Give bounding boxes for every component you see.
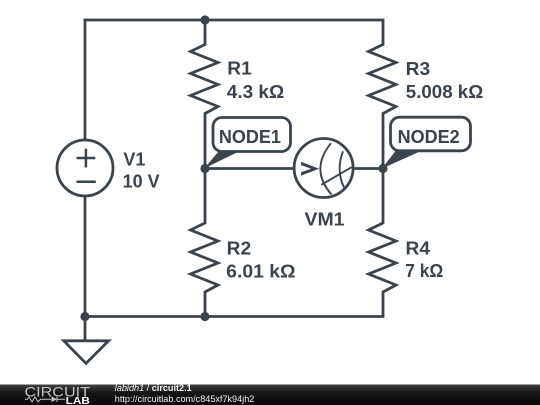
svg-text:10 V: 10 V [123, 171, 160, 191]
svg-text:NODE1: NODE1 [219, 127, 281, 147]
wire middle (NODE1 to NODE2) [205, 167, 383, 170]
svg-text:R4: R4 [406, 239, 431, 259]
wire bottom rail [84, 315, 385, 318]
svg-text:R1: R1 [227, 59, 252, 79]
svg-text:http://circuitlab.com/c845xf7k: http://circuitlab.com/c845xf7k94jh2 [115, 394, 255, 404]
wire V1 bottom lead [84, 195, 87, 317]
resistor R3 [369, 20, 397, 169]
node NODE1 junction [200, 164, 209, 173]
svg-text:LAB: LAB [66, 395, 91, 405]
node NODE2 flag [382, 117, 471, 168]
svg-text:labidh1 / circuit2.1: labidh1 / circuit2.1 [115, 383, 192, 393]
node junction dots [80, 15, 387, 321]
ground lead [84, 317, 87, 341]
node top junction [200, 15, 209, 24]
resistor R4 [369, 169, 397, 317]
svg-text:6.01 kΩ: 6.01 kΩ [226, 262, 295, 282]
svg-text:4.3 kΩ: 4.3 kΩ [227, 82, 284, 102]
resistor R2 [191, 169, 219, 317]
ground [64, 341, 109, 364]
svg-text:7 kΩ: 7 kΩ [405, 261, 443, 281]
wire top rail [84, 19, 385, 22]
svg-text:5.008 kΩ: 5.008 kΩ [406, 82, 483, 102]
voltage source V1 [57, 140, 113, 196]
node bottom junction [200, 312, 209, 321]
svg-text:NODE2: NODE2 [398, 127, 460, 147]
node bottom-left junction [80, 312, 89, 321]
node NODE1 flag [204, 118, 291, 169]
svg-text:V1: V1 [123, 150, 145, 170]
svg-text:R2: R2 [227, 239, 252, 259]
CircuitLab logo [25, 383, 91, 405]
node NODE2 junction [378, 164, 387, 173]
voltmeter VM1 [294, 139, 353, 198]
resistor R1 [191, 20, 219, 169]
wire V1 top lead [84, 19, 87, 141]
svg-text:VM1: VM1 [305, 210, 345, 230]
svg-text:R3: R3 [406, 59, 431, 79]
